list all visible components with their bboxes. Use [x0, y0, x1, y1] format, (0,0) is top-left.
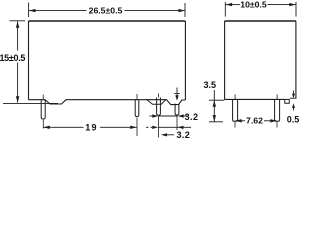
dimension 26.5±0.5 line and arrows — [29, 9, 185, 12]
side pin tab 2 extension line — [276, 122, 278, 128]
dimension 7.62 line and arrows — [235, 119, 277, 122]
dimension 19 line and arrows — [43, 126, 136, 129]
svg-text:15±0.5: 15±0.5 — [0, 53, 25, 63]
right view bottom-right stub — [285, 99, 290, 103]
side pin tab 2 — [275, 94, 280, 121]
svg-text:3.5: 3.5 — [203, 80, 216, 90]
right view body outline — [225, 21, 296, 100]
pin 3 extension line — [158, 117, 160, 138]
svg-text:3.2: 3.2 — [185, 112, 199, 122]
pin 2 — [135, 94, 139, 117]
pin 4 extension line — [176, 116, 178, 131]
svg-text:10±0.5: 10±0.5 — [240, 0, 267, 10]
side pin tab 1 — [233, 94, 238, 121]
svg-text:0.5: 0.5 — [287, 114, 300, 124]
left view bottom pedestal under pin 3 — [147, 100, 166, 105]
dimension 15±0.5 ticks — [3, 21, 58, 104]
svg-text:7.62: 7.62 — [246, 116, 263, 126]
dimension 26.5±0.5 extension lines — [29, 3, 185, 18]
pin 3 — [157, 94, 161, 116]
side pin tab 1 extension line — [234, 122, 236, 128]
dimension 3.2 (lower row, arrows at pins 3-4 extensions) — [146, 126, 191, 129]
dimension 0.5 line and arrows — [290, 91, 297, 111]
dimension 3.2 (upper, pins 3-4) — [150, 114, 188, 117]
pin 4 — [175, 104, 179, 115]
left view body outline — [29, 21, 186, 105]
svg-text:26.5±0.5: 26.5±0.5 — [89, 5, 123, 15]
arrow pointing to notch above pin 4 — [174, 88, 180, 101]
pin 2 extension line — [136, 118, 138, 137]
pin 1 — [41, 95, 45, 119]
dimension 3.5 ticks — [209, 100, 224, 122]
dimension 3.2 (bottom label with left arrow) — [161, 133, 174, 136]
dimension 10±0.5 extension lines — [225, 2, 296, 17]
pin 1 extension line — [42, 120, 44, 129]
svg-text:3.2: 3.2 — [176, 130, 190, 140]
svg-text:19: 19 — [85, 122, 97, 132]
dimension 15±0.5 line and arrows — [16, 21, 19, 103]
dimension 3.5 line and arrows — [213, 90, 216, 122]
dimension 10±0.5 line and arrows — [226, 3, 296, 6]
